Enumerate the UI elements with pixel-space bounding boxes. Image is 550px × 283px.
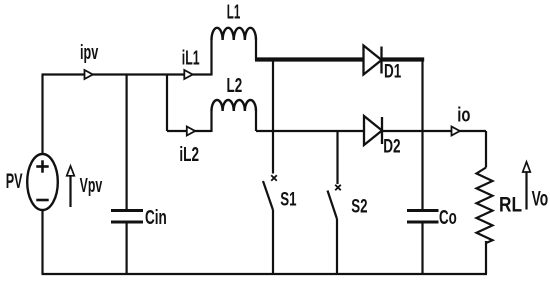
wire S2 branch upper [336,131,338,184]
switch S2 contact x-mark [335,185,341,191]
wire S1 branch upper [272,60,274,174]
capacitor Cin plates [111,211,143,223]
svg-text:S1: S1 [280,190,297,211]
switch S2 blade [328,191,338,220]
wire bottom rail [42,273,488,275]
switch S1 blade [263,181,273,210]
wire L2 row left [167,130,212,132]
diode D1 [364,46,382,75]
wire S1 branch lower [272,210,274,274]
svg-text:iL1: iL1 [182,48,200,70]
wire L1 left lead [210,40,212,76]
wire L2 branch vertical [166,75,168,132]
current arrow iL1 [184,70,192,79]
wire thick bus right (D1 cathode to right bus) [382,57,425,61]
svg-text:Cin: Cin [145,207,167,229]
voltage arrow Vo [523,162,531,210]
wire S2 branch lower [336,219,338,274]
svg-text:iL2: iL2 [179,144,199,166]
wire left vertical bottom (PV to bottom rail) [41,210,43,275]
svg-text:Vo: Vo [532,187,549,211]
wire L1 right lead [255,40,257,60]
wire D2 output row (to load) [382,130,487,132]
wire L2 left lead [210,111,212,132]
voltage arrow Vpv [67,166,75,207]
PV minus sign [36,199,48,202]
diode D2 [364,116,382,145]
wire left vertical top (PV to top rail) [41,75,43,155]
wire Cin branch lower [125,224,127,275]
svg-text:L2: L2 [227,75,243,97]
inductor L2 [212,100,257,111]
wire RL top lead [485,131,487,168]
switch S1 contact x-mark [271,175,277,181]
source PV ellipse [27,154,58,210]
resistor RL zigzag [477,168,493,244]
svg-text:L1: L1 [227,1,241,23]
wire RL bottom lead [485,241,487,274]
inductor L1 [212,28,257,40]
svg-text:D2: D2 [383,136,400,157]
wire top rail [42,73,212,75]
wire right bus lower (Co to bottom rail) [421,224,423,275]
svg-text:Co: Co [439,207,457,229]
current arrow io [452,127,460,136]
wire L2 row right (to D2 anode) [256,130,364,132]
wire thick bus left (L1 to D1 anode) [255,57,364,61]
svg-text:D1: D1 [384,61,402,82]
svg-text:RL: RL [499,192,522,216]
wire Cin branch upper [125,75,127,210]
svg-text:S2: S2 [351,196,367,217]
svg-text:ipv: ipv [80,42,99,64]
svg-text:io: io [457,105,470,127]
svg-text:PV: PV [6,170,23,193]
wire L2 right lead [255,111,257,131]
wire right bus upper (D1 cathode to Co) [421,60,423,210]
svg-text:Vpv: Vpv [80,175,103,197]
current arrow iL2 [187,127,195,136]
PV plus sign [36,160,48,172]
capacitor Co plates [407,211,439,223]
current arrow ipv [85,70,93,79]
